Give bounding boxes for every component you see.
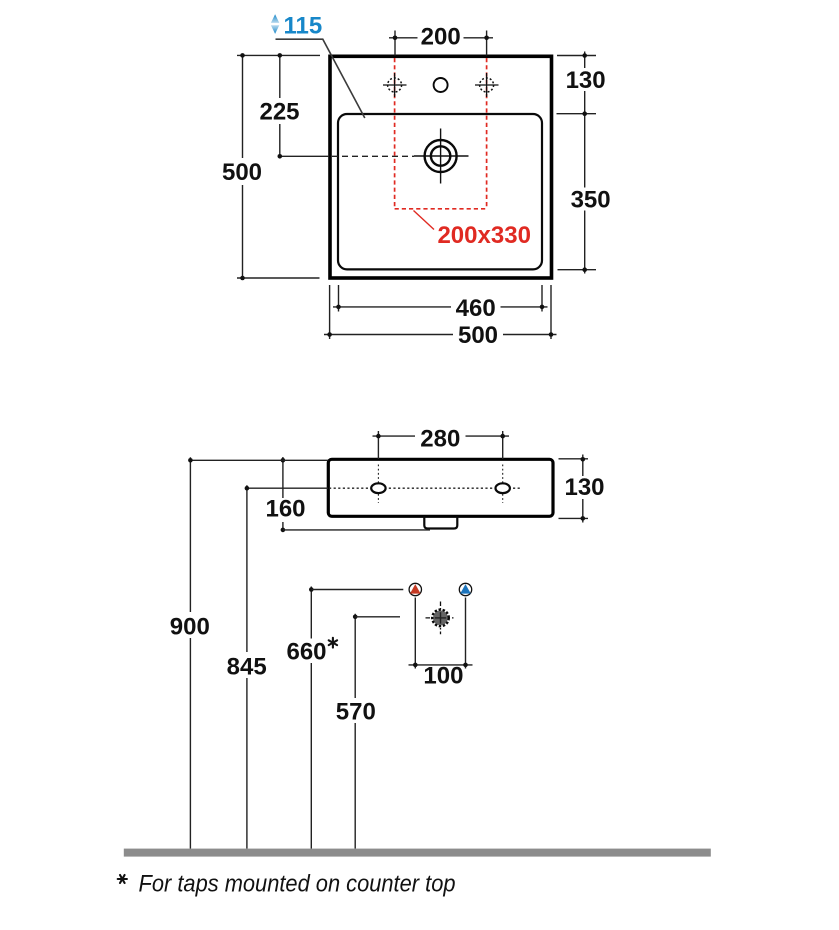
centre dashed line to drain [280,155,329,157]
fixing hole height line (845 top) [247,487,328,489]
svg-text:160: 160 [265,496,305,523]
dimension 225 [279,55,281,156]
svg-text:225: 225 [259,99,299,126]
dimension 160 [282,457,284,530]
svg-text:130: 130 [564,474,604,501]
wall-height reference line (900 top) [190,459,328,461]
dimension 100 [414,598,416,669]
basin inner bowl rounded rect [338,114,542,269]
red dashed cut-out rectangle 200x330 [394,58,396,209]
svg-text:280: 280 [420,426,460,453]
svg-text:200x330: 200x330 [437,222,531,249]
svg-text:845: 845 [227,653,267,680]
dimension 660* vertical [310,587,312,849]
hot water supply (red triangle) [409,583,421,595]
svg-text:500: 500 [458,322,498,349]
dimension 280 [377,431,379,459]
fixing hole right [496,483,510,493]
basin outer square [330,56,552,278]
fixing hole vertical centre lines [377,465,379,504]
footnote asterisk [118,875,127,883]
svg-text:570: 570 [336,699,376,726]
svg-text:115: 115 [284,13,323,40]
waste pipe symbol [426,617,456,619]
drain outlet stub [424,516,457,528]
svg-text:500: 500 [222,159,262,186]
cold water supply (blue triangle) [459,583,471,595]
dimension 845 vertical [246,485,248,848]
svg-text:660: 660 [286,639,326,666]
drain inner circle [431,146,450,165]
svg-text:For taps mounted on counter to: For taps mounted on counter top [139,871,456,898]
dimension 570 vertical [354,614,356,849]
svg-text:900: 900 [170,613,210,640]
drain outer circle [425,140,457,172]
dimension 130 / 350 right of plan [557,55,596,57]
floor line [124,849,711,857]
drain crosshair [440,129,442,184]
dimension 500 left [237,54,320,56]
svg-text:460: 460 [456,295,496,322]
dimension 130 front [559,458,589,460]
dimension 900 vertical [189,457,191,848]
basin front outline [328,459,553,516]
svg-text:130: 130 [566,67,606,94]
svg-text:200: 200 [421,23,461,50]
fixing holes centre line (dotted) [329,487,522,489]
svg-text:350: 350 [571,186,611,213]
dimension 500 bottom [329,285,331,339]
dimension 115 icon (up/down arrows) [271,14,279,23]
dimension 200 (tap hole spacing) [394,31,396,56]
tap hole left (dotted circle + cross) [383,84,407,86]
svg-text:100: 100 [423,663,463,690]
dimension 460 [338,285,340,312]
fixing hole left [371,483,385,493]
tap hole right (dotted circle + cross) [475,84,499,86]
red leader line [414,211,435,230]
overflow hole [434,78,448,92]
leader line for 115 [276,39,365,118]
